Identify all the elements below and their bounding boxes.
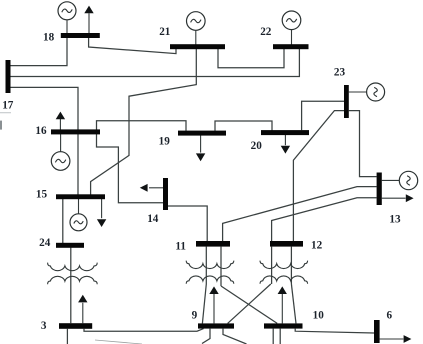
- svg-text:12: 12: [311, 240, 323, 252]
- svg-text:17: 17: [2, 99, 14, 111]
- svg-text:6: 6: [387, 310, 393, 322]
- svg-text:15: 15: [36, 188, 48, 200]
- svg-text:11: 11: [175, 241, 186, 253]
- svg-text:9: 9: [192, 309, 198, 321]
- svg-text:23: 23: [334, 67, 346, 79]
- svg-text:20: 20: [251, 140, 263, 152]
- svg-text:24: 24: [39, 237, 51, 249]
- svg-text:13: 13: [389, 213, 401, 225]
- svg-text:22: 22: [260, 26, 272, 38]
- svg-text:21: 21: [159, 26, 171, 38]
- svg-text:3: 3: [41, 320, 47, 332]
- svg-text:18: 18: [43, 32, 55, 44]
- svg-text:10: 10: [313, 309, 325, 321]
- svg-text:19: 19: [159, 136, 171, 148]
- svg-text:14: 14: [147, 213, 159, 225]
- svg-text:16: 16: [35, 125, 47, 137]
